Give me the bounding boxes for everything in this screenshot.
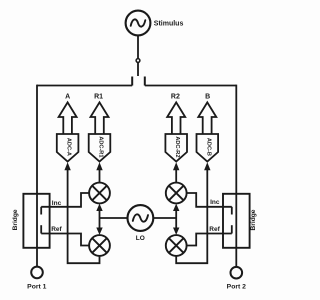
bridge 2 Ref coupler bracket	[231, 225, 233, 233]
svg-text:Stimulus: Stimulus	[154, 21, 184, 28]
bridge 2 Inc coupler bracket	[231, 207, 233, 215]
svg-text:R1: R1	[94, 94, 103, 101]
svg-text:Ref: Ref	[209, 226, 220, 233]
svg-text:Bridge: Bridge	[250, 209, 257, 230]
wire switch to left bridge arm	[37, 85, 132, 87]
wire LO to right mixer pair	[154, 217, 177, 219]
wire MX4 IF output to ADC-B	[176, 162, 210, 263]
port 1 connector	[31, 267, 43, 279]
svg-text:ADC-R1: ADC-R1	[98, 136, 104, 157]
wire Inc tap to mixer MX1	[41, 193, 89, 207]
LO double arrow right (to MX3 and MX4)	[173, 204, 179, 235]
bridge 1 Ref coupler bracket	[40, 225, 42, 233]
wire LO to left mixer pair	[100, 217, 128, 219]
wire stimulus to switch node	[137, 35, 139, 58]
switch node	[136, 59, 140, 63]
wire right main line through bridge to port 2	[235, 85, 237, 267]
svg-text:ADC-B: ADC-B	[205, 138, 211, 156]
svg-text:Port 1: Port 1	[27, 283, 46, 290]
ADC-R2 converter	[165, 134, 187, 162]
LO source U2	[127, 205, 153, 231]
signal block arrow R2	[167, 102, 185, 134]
switch left contact	[131, 77, 133, 86]
svg-text:Bridge: Bridge	[12, 209, 19, 230]
stimulus source U1	[126, 11, 151, 36]
wire MX2 IF output to ADC-A	[64, 162, 99, 263]
svg-text:ADC-A: ADC-A	[66, 138, 72, 156]
signal block arrow B	[198, 102, 216, 134]
wire switch to right bridge arm	[145, 85, 237, 87]
ADC-R1 converter	[89, 134, 111, 162]
svg-text:R2: R2	[171, 94, 180, 101]
wire left main line through bridge to port 1	[36, 85, 38, 267]
signal block arrow A	[59, 102, 77, 134]
svg-text:Port 2: Port 2	[227, 284, 246, 291]
svg-text:Inc: Inc	[52, 200, 62, 207]
bridge 2 box	[223, 194, 250, 248]
bridge 1 Inc coupler bracket	[40, 207, 42, 215]
mixer MX3	[166, 183, 187, 204]
bridge 1 box	[23, 194, 49, 248]
switch right contact	[144, 77, 146, 86]
wire Ref tap to mixer MX2	[41, 234, 89, 246]
wire node to switch pole	[137, 63, 139, 76]
ADC-A converter	[57, 134, 79, 162]
svg-text:LO: LO	[136, 235, 145, 242]
wire mixer MX4 to Ref tap right	[187, 234, 232, 246]
wire MX1 IF output to ADC-R1	[96, 162, 102, 182]
port 2 connector	[231, 267, 243, 279]
svg-text:Ref: Ref	[51, 226, 62, 233]
wire MX3 IF output to ADC-R2	[173, 162, 179, 182]
svg-text:Inc: Inc	[210, 199, 220, 206]
mixer MX1	[89, 183, 110, 204]
mixer MX2	[89, 235, 110, 256]
svg-text:ADC-R2: ADC-R2	[174, 136, 180, 157]
svg-text:B: B	[205, 94, 210, 101]
wire mixer MX3 to Inc tap right	[187, 193, 232, 207]
LO double arrow left (to MX1 and MX2)	[96, 204, 102, 235]
mixer MX4	[166, 235, 187, 256]
signal block arrow R1	[91, 102, 109, 134]
svg-text:A: A	[65, 94, 70, 101]
ADC-B converter	[197, 134, 219, 162]
